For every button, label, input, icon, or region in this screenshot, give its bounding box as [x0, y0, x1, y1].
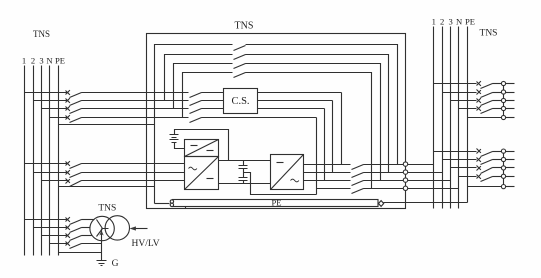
- switch blade CS-in phase3: [190, 109, 202, 114]
- label U4 ac tilde: [291, 179, 299, 182]
- switch contact bypass neutral: [66, 115, 70, 120]
- switch contact load1 neutral: [477, 106, 481, 111]
- label U4 dc dash: [277, 162, 284, 164]
- wire CS out phase3: [258, 108, 325, 110]
- wire bypass drop phase3: [324, 109, 326, 181]
- label right bus conductor labels 1 2 3 N PE: [432, 17, 475, 27]
- switch blade output phase1: [352, 165, 364, 170]
- wire left bus PE vertical: [58, 66, 60, 256]
- switch contact rectifier phase3: [66, 179, 70, 184]
- wire ring R5 top right segment: [246, 73, 372, 189]
- node left bus conductor labels 1 2 3 N PE: [22, 56, 65, 66]
- converter U4 diagonal: [271, 155, 304, 190]
- node load2 terminal PE: [501, 185, 505, 189]
- wire ring R5 top left segment: [183, 73, 233, 118]
- wire rectifier feed phase1 in: [25, 163, 69, 165]
- battery B1 plates: [170, 135, 179, 143]
- wire input PE tap lower: [59, 186, 155, 188]
- wire bypass phase3 mid: [82, 108, 189, 110]
- switch blade output phase2: [352, 173, 364, 178]
- wire load1 neutral to terminal: [493, 108, 502, 110]
- switch contact load2 phase2: [477, 157, 481, 162]
- switch blade load2 phase2: [481, 160, 493, 165]
- switch contact bypass phase2: [66, 98, 70, 103]
- svg-text:N: N: [456, 17, 463, 27]
- label U3 dc dash: [207, 178, 214, 180]
- svg-text:1: 1: [432, 17, 436, 27]
- wire ring R1 neutral rectangle: [147, 34, 406, 209]
- wire left bus L3 vertical: [41, 66, 43, 256]
- wire PE to earth link: [59, 252, 102, 254]
- wire bypass drop neutral: [316, 118, 318, 195]
- wire bypass phase2 in: [34, 100, 69, 102]
- wire ring R4 top left segment: [174, 64, 233, 109]
- wire bypass neutral mid: [82, 117, 189, 119]
- wire load2 stub PE: [506, 186, 515, 188]
- wire output phase1 to bus: [364, 164, 434, 166]
- arrow HV/LV pointer: [136, 228, 148, 230]
- node load1 terminal phase3: [501, 98, 505, 102]
- converter inverter box U4: [271, 155, 304, 190]
- wire transformer earth conductor: [101, 229, 103, 261]
- converter U2 diagonal: [185, 140, 219, 157]
- wire bypass phase2 mid: [82, 100, 189, 102]
- svg-text:TNS: TNS: [98, 204, 116, 214]
- wire output phase3: [304, 180, 351, 182]
- switch blade rectifier phase3: [70, 181, 82, 187]
- wire load2 phase3 to terminal: [493, 167, 502, 169]
- wire left bus L1 vertical: [24, 66, 26, 256]
- svg-text:3: 3: [39, 56, 43, 66]
- wire right bus PE vertical: [467, 27, 469, 203]
- wire load1 phase1 branch: [434, 83, 477, 85]
- wire right bus phase2 vertical: [442, 27, 444, 209]
- wire load2 PE branch: [468, 186, 502, 188]
- node load1 terminal PE: [501, 115, 505, 119]
- switch contact load2 neutral: [477, 174, 481, 179]
- transformer T1 primary circle: [90, 216, 114, 240]
- capacitor C1: [239, 161, 248, 178]
- svg-text:C.S.: C.S.: [231, 96, 249, 107]
- switch blade CS-in phase1: [190, 93, 202, 98]
- wire bypass neutral under CS to drop: [202, 117, 317, 119]
- wire bypass phase3 in: [42, 108, 69, 110]
- wire input PE tap upper: [59, 124, 155, 126]
- wire rectifier feed phase3 to box: [82, 180, 185, 182]
- wire CS out phase1: [258, 92, 342, 94]
- switch contact load1 phase2: [477, 90, 481, 95]
- wire ring R3 top right segment: [246, 55, 389, 173]
- svg-text:PE: PE: [465, 17, 475, 27]
- switch blade output neutral: [352, 189, 364, 194]
- ground symbol G: [97, 261, 107, 266]
- node load1 terminal phase2: [501, 90, 505, 94]
- switch blade load1 phase3: [481, 101, 493, 106]
- svg-text:TNS: TNS: [480, 29, 498, 39]
- node PE busbar right terminal: [379, 201, 384, 207]
- wire load1 stub neutral: [506, 108, 515, 110]
- switch blade bypass neutral 2: [190, 118, 202, 123]
- label U2 dc bottom: [207, 150, 214, 152]
- node PE busbar left terminal: [170, 200, 173, 203]
- wire bypass neutral in: [50, 117, 69, 119]
- switch contact load1 phase3: [477, 98, 481, 103]
- label U2 dc top: [191, 145, 198, 147]
- svg-text:PE: PE: [55, 56, 65, 66]
- battery B1 wire bottom: [175, 143, 185, 149]
- converter U3 diagonal: [185, 157, 219, 190]
- wire PE busbar bonding link: [185, 207, 187, 209]
- switch blade ring R4: [234, 64, 246, 69]
- wire transformer phase3 to winding: [82, 235, 93, 237]
- wire load1 phase3 to terminal: [493, 100, 502, 102]
- wire right bus phase1 vertical: [433, 27, 435, 209]
- wire load2 phase2 to terminal: [493, 159, 502, 161]
- wire ring R3 top left segment: [165, 55, 233, 101]
- wire load2 terminal bus vertical: [503, 152, 505, 187]
- switch contact bypass phase1: [66, 90, 70, 95]
- wire load1 PE branch: [468, 117, 502, 119]
- wire load1 stub phase3: [506, 100, 515, 102]
- svg-text:G: G: [112, 259, 119, 269]
- wire bypass drop phase1: [341, 93, 343, 165]
- switch contact transformer phase1: [66, 217, 70, 222]
- op static switch C.S. box U1: [224, 89, 258, 114]
- wire load1 phase1 to terminal: [493, 83, 502, 85]
- wire right bus phase3 vertical: [450, 27, 452, 209]
- switch blade ring R3: [234, 55, 246, 60]
- switch contact rectifier phase2: [66, 170, 70, 175]
- wire ring R4 top right segment: [246, 64, 381, 181]
- svg-text:HV/LV: HV/LV: [132, 239, 160, 249]
- wire transformer feed neutral in: [50, 243, 69, 245]
- switch blade ring R5: [234, 73, 246, 78]
- node load2 terminal phase2: [501, 157, 505, 161]
- wire bypass drop phase2: [332, 101, 334, 173]
- wire PE busbar to right bus: [384, 202, 468, 204]
- wire load2 phase1 branch: [434, 151, 477, 153]
- switch contact transformer neutral: [66, 241, 70, 246]
- wire load2 neutral to terminal: [493, 176, 502, 178]
- node output terminal circle phase1: [403, 162, 407, 166]
- svg-text:2: 2: [31, 56, 35, 66]
- switch contact load2 phase1: [477, 149, 481, 154]
- svg-text:1: 1: [22, 56, 26, 66]
- wire transformer feed phase3 in: [42, 235, 69, 237]
- switch blade rectifier phase2: [70, 173, 82, 178]
- wire CS out phase2: [258, 100, 333, 102]
- switch blade output phase3: [352, 181, 364, 186]
- transformer T1 secondary circle: [105, 216, 129, 240]
- switch blade bypass phase2: [70, 101, 82, 106]
- wire ring R2 top right segment: [246, 45, 398, 165]
- svg-text:PE: PE: [271, 198, 281, 208]
- wire transformer phase2 to winding: [82, 227, 91, 229]
- wire load1 stub PE: [506, 117, 515, 119]
- svg-text:2: 2: [440, 17, 444, 27]
- wire load2 stub phase2: [506, 159, 515, 161]
- label U3 ac tilde: [189, 167, 197, 170]
- node load2 terminal phase3: [501, 166, 505, 170]
- switch blade rectifier phase1: [70, 164, 82, 169]
- switch blade load1 neutral: [481, 109, 493, 114]
- wire bypass phase1 in: [25, 92, 69, 94]
- switch contact transformer phase3: [66, 233, 70, 238]
- switch contact load2 phase3: [477, 166, 481, 171]
- svg-text:TNS: TNS: [235, 21, 254, 32]
- transformer T1 star point symbol: [97, 220, 109, 237]
- node load1 terminal phase1: [501, 81, 505, 85]
- switch blade transformer phase1: [70, 220, 82, 225]
- wire rectifier feed phase2 to box: [82, 172, 185, 174]
- wire output phase2 to bus: [364, 172, 443, 174]
- switch blade transformer phase3: [70, 236, 82, 241]
- wire load2 neutral branch: [459, 176, 477, 178]
- arrow on earth conductor: [99, 231, 103, 236]
- wire rectifier feed phase1 to box: [82, 163, 185, 165]
- wire bypass phase3 to CS: [202, 108, 224, 110]
- wire load1 phase3 branch: [451, 100, 477, 102]
- wire load1 terminal bus vertical: [503, 84, 505, 118]
- wire load1 stub phase2: [506, 92, 515, 94]
- svg-text:TNS: TNS: [33, 29, 50, 39]
- switch blade bypass phase1: [70, 93, 82, 98]
- node load2 terminal neutral: [501, 174, 505, 178]
- wire output phase2: [304, 172, 351, 174]
- node load1 terminal neutral: [501, 106, 505, 110]
- wire ring R2 PE top left segment: [155, 45, 233, 204]
- node output terminal circle phase2: [403, 170, 407, 174]
- switch blade load2 phase3: [481, 168, 493, 174]
- battery B1 wire top: [175, 130, 229, 161]
- wire load1 neutral branch: [459, 108, 477, 110]
- switch blade bypass neutral: [70, 118, 82, 123]
- wire load1 stub phase1: [506, 83, 515, 85]
- switch blade transformer neutral: [70, 244, 82, 249]
- switch blade load1 phase1: [481, 84, 493, 89]
- switch contact bypass phase3: [66, 106, 70, 111]
- wire load2 stub neutral: [506, 176, 515, 178]
- wire right bus neutral vertical: [458, 27, 460, 209]
- switch blade bypass phase3: [70, 109, 82, 114]
- wire transformer feed phase2 in: [34, 227, 69, 229]
- switch blade transformer phase2: [70, 228, 82, 233]
- switch blade load1 phase2: [481, 93, 493, 98]
- wire load2 phase2 branch: [443, 159, 477, 161]
- capacitor C2: [239, 178, 248, 184]
- wire transformer feed phase1 in: [25, 219, 69, 221]
- wire output neutral: [317, 188, 351, 190]
- wire transformer phase1 to winding: [82, 219, 95, 221]
- wire load2 stub phase1: [506, 151, 515, 153]
- wire left bus L2 vertical: [33, 66, 35, 256]
- wire load1 phase2 branch: [443, 92, 477, 94]
- switch contact rectifier phase1: [66, 161, 70, 166]
- wire dc rail minus: [219, 183, 271, 185]
- wire dc midpoint to neutral: [244, 173, 317, 195]
- wire rectifier feed phase2 in: [34, 172, 69, 174]
- switch contact load1 phase1: [477, 81, 481, 86]
- wire output phase1: [304, 164, 351, 166]
- wire bypass phase1 to CS: [202, 92, 224, 94]
- wire transformer neutral to star point: [82, 243, 102, 245]
- wire load2 phase1 to terminal: [493, 151, 502, 153]
- wire dc rail plus: [219, 160, 271, 162]
- switch blade CS-in phase2: [190, 101, 202, 106]
- wire load2 stub phase3: [506, 167, 515, 169]
- switch blade load2 phase1: [481, 152, 493, 157]
- svg-text:3: 3: [448, 17, 452, 27]
- switch blade load2 neutral: [481, 177, 493, 182]
- wire load2 phase3 branch: [451, 167, 477, 169]
- wire load1 phase2 to terminal: [493, 92, 502, 94]
- wire left bus N vertical: [49, 66, 51, 256]
- switch contact transformer phase2: [66, 225, 70, 230]
- node output terminal circle neutral: [403, 186, 407, 190]
- wire output phase3 to bus: [364, 180, 451, 182]
- wire rectifier feed phase3 in: [42, 180, 69, 182]
- converter DC/DC charger box U2: [185, 140, 219, 157]
- switch blade ring R2: [234, 46, 246, 51]
- node output terminal circle phase3: [403, 178, 407, 182]
- svg-text:N: N: [46, 56, 53, 66]
- wire bypass phase1 mid: [82, 92, 189, 94]
- node load2 terminal phase1: [501, 149, 505, 153]
- node PE busbar: [173, 200, 379, 207]
- wire output neutral to bus: [364, 188, 459, 190]
- converter rectifier box U3: [185, 157, 219, 190]
- wire ring R2 link to PE bar: [155, 203, 170, 205]
- wire bypass phase2 to CS: [202, 100, 224, 102]
